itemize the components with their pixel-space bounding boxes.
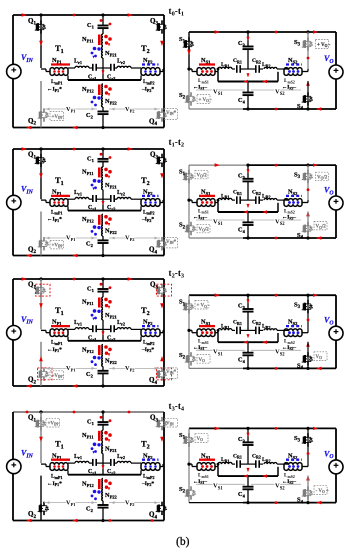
svg-text:S2: S2 <box>179 352 186 361</box>
svg-text:C1: C1 <box>87 285 95 293</box>
svg-text:VIN: VIN <box>166 422 174 427</box>
red arrow on bottom rail <box>26 384 31 388</box>
red arrow on bottom rail mid <box>72 384 77 388</box>
winding Np11 (red bar + coil) <box>98 168 101 178</box>
wire: Ns1 connections <box>189 68 192 70</box>
svg-text:CR2: CR2 <box>252 453 261 459</box>
svg-text:+VIN-: +VIN- <box>52 244 64 249</box>
svg-text:NP11: NP11 <box>82 299 94 307</box>
wire: rectifier lower bus <box>217 72 219 82</box>
svg-text:Q2: Q2 <box>28 510 36 520</box>
svg-text:+VIN-: +VIN- <box>52 115 64 120</box>
red dot right of C1 <box>109 419 112 422</box>
svg-text:LmS2: LmS2 <box>284 78 295 84</box>
svg-text:T2: T2 <box>141 43 150 55</box>
svg-text:LmP1: LmP1 <box>51 474 62 480</box>
wire: Np1 to leg <box>41 463 46 465</box>
node dot at C3 junction <box>246 294 249 297</box>
red arrow on top rail right <box>128 13 133 17</box>
transistor S2 <box>190 222 192 226</box>
wire: left bridge bottom rail <box>13 255 164 257</box>
capacitor Cr2 <box>103 328 111 330</box>
wire: left bridge bottom rail <box>13 127 164 129</box>
wire: Ns1 connections <box>189 463 192 465</box>
svg-text:S3: S3 <box>294 39 301 48</box>
red arrow below C3 junction <box>247 468 250 472</box>
svg-text:T1: T1 <box>55 175 64 187</box>
red dot at C1 <box>100 153 103 156</box>
red arrow at C3 <box>247 37 250 41</box>
blue dots at Np22 <box>93 225 97 229</box>
transistor Q1 <box>40 154 42 158</box>
winding Np12 (red bar + coil) <box>98 479 101 489</box>
svg-text:S1: S1 <box>179 432 186 441</box>
svg-text:CR1: CR1 <box>233 320 242 326</box>
wire: left bridge right rail <box>163 149 165 256</box>
blue dots in Lmp2 <box>144 70 147 73</box>
wire: Np2 box to right leg <box>160 71 163 73</box>
source Vo <box>329 196 343 210</box>
capacitor C2 <box>102 367 104 371</box>
svg-text:NP12: NP12 <box>82 480 95 488</box>
wire: rectifier left leg <box>188 428 190 464</box>
node dot at Ns1 left <box>187 67 190 70</box>
wire: left bridge right rail <box>163 279 165 386</box>
red arrow on Q4 leg <box>160 356 164 361</box>
red arrow on rectifier top rail right <box>313 30 318 33</box>
red dot on top rail <box>73 148 76 151</box>
inductor Lmp2 box with coil <box>141 68 160 70</box>
svg-text:Lr2: Lr2 <box>117 59 125 65</box>
transistor S3 <box>307 300 309 304</box>
svg-text:NP22: NP22 <box>105 98 118 106</box>
label Vs1 measurement <box>196 483 245 485</box>
inductor Lmp2 box with coil <box>141 199 160 201</box>
svg-text:Cr1: Cr1 <box>88 75 96 81</box>
capacitor Cr2 <box>103 67 111 69</box>
wire: Np2 box to right leg <box>160 466 163 468</box>
red arrow on Q2 leg <box>39 356 43 361</box>
blue dots at Np22 <box>93 356 97 360</box>
svg-text:←IP1*: ←IP1* <box>47 217 62 223</box>
svg-text:Cr1: Cr1 <box>88 205 96 211</box>
wire: Q1/Q2 leg <box>40 149 42 199</box>
winding Ns2 box with coil <box>284 463 302 465</box>
svg-text:C3: C3 <box>238 172 246 180</box>
red dot on top rail right <box>128 411 131 414</box>
label Vo at S1 with dashed box <box>195 170 208 179</box>
svg-text:LmP2: LmP2 <box>143 474 154 480</box>
svg-text:VO: VO <box>324 449 334 460</box>
svg-text:VIN: VIN <box>21 315 34 326</box>
svg-text:Lr1: Lr1 <box>74 190 82 196</box>
node dot at S3 junction <box>306 30 309 33</box>
wire: Np2 box to right leg <box>160 332 163 334</box>
svg-text:VS1: VS1 <box>213 218 223 227</box>
wire: rectifier left leg <box>188 32 190 69</box>
wire: left bridge right rail <box>163 412 165 521</box>
svg-text:NP11: NP11 <box>82 432 94 440</box>
label +Vin- at Q4 with dashed box <box>164 368 178 379</box>
svg-text:VP1: VP1 <box>66 365 76 373</box>
winding Np21 (coil) <box>102 442 103 453</box>
svg-text:Cr2: Cr2 <box>107 205 115 211</box>
red dot on bottom rail x152 <box>151 519 154 522</box>
transistor Q1 <box>40 284 42 288</box>
svg-text:+VIN-: +VIN- <box>48 422 60 427</box>
svg-text:T1: T1 <box>55 439 64 451</box>
node dot at C3 junction <box>246 30 249 33</box>
wire: left bridge right rail <box>163 15 165 128</box>
red arrow on lower bus left <box>243 80 248 83</box>
wire: rectifier top rail <box>189 427 336 429</box>
svg-text:C1: C1 <box>87 22 95 30</box>
wire: rectifier bottom rail <box>189 367 243 369</box>
blue dots at Np21 <box>93 47 97 51</box>
svg-text:C2: C2 <box>86 112 94 120</box>
svg-text:CR2: CR2 <box>252 190 261 196</box>
wire: rectifier right inner leg lower <box>307 342 309 369</box>
red arrow on top rail <box>22 13 27 17</box>
node dot at C4 bottom junction <box>246 501 249 504</box>
node dot at Q1 leg junction <box>39 410 42 413</box>
wire: tank bus stub left <box>67 76 69 81</box>
capacitor Cr1 (rect) <box>236 460 238 468</box>
svg-text:S3: S3 <box>294 435 301 444</box>
wire: Ns1 connections <box>189 329 192 331</box>
transistor S4 <box>307 352 309 356</box>
red arrow below C3 junction <box>247 204 250 208</box>
svg-text:VO/2: VO/2 <box>316 225 327 230</box>
red arrow below C3 junction <box>247 73 250 77</box>
svg-text:C2: C2 <box>86 241 94 249</box>
label Vs2 measurement <box>251 349 301 351</box>
red arrow on rectifier bottom rail <box>316 236 321 240</box>
svg-text:C1: C1 <box>87 155 95 163</box>
blue dots at Np21 <box>93 443 97 447</box>
wire: left bridge bottom rail <box>13 385 164 387</box>
wire: Ns2 to right leg <box>302 466 308 468</box>
wire: rectifier right inner leg upper <box>307 32 309 69</box>
label Vp2 measurement <box>109 237 160 239</box>
red arrow on rectifier top rail right <box>313 163 318 166</box>
red dot on bottom rail x110 <box>109 519 112 522</box>
label Vp2 measurement <box>109 502 160 504</box>
node dot at C2 junction <box>101 519 104 522</box>
wire: rectifier right rail + Vo source <box>335 295 337 326</box>
transistor S2 <box>190 486 192 490</box>
wire: Np1 to leg <box>41 199 46 201</box>
label Vs2 measurement <box>251 89 301 91</box>
capacitor Cr1 <box>92 195 94 202</box>
node dot at S4 bottom junction <box>306 236 309 239</box>
svg-text:(b): (b) <box>176 536 190 548</box>
svg-text:Lr1: Lr1 <box>74 59 82 65</box>
inductor Lmp2 box with coil <box>141 329 160 331</box>
red arrow on Q1 leg <box>39 303 43 308</box>
wire: rectifier right inner leg lower <box>307 212 309 239</box>
red dot on right inner leg <box>307 188 310 191</box>
svg-text:S4: S4 <box>297 497 304 506</box>
winding Np12 (red bar + coil) <box>98 215 101 225</box>
winding Np22 (coil) <box>102 356 103 367</box>
node dot at Q1 leg junction <box>39 277 42 280</box>
wire: Ns2 to right leg <box>302 332 308 334</box>
svg-text:VIN: VIN <box>21 185 34 196</box>
inductor Lmp2 box with coil <box>141 463 160 465</box>
red arrow on Q1 leg <box>39 437 43 442</box>
transistor Q4 <box>161 108 163 112</box>
svg-text:←IP1*: ←IP1* <box>47 87 62 93</box>
red dot right of C1 <box>109 286 112 289</box>
capacitor C3 <box>247 32 249 47</box>
capacitor C1 <box>102 279 104 289</box>
wire: rectifier bottom rail <box>189 502 243 504</box>
red arrow on rectifier bottom rail <box>316 501 321 505</box>
source Vin <box>7 459 21 473</box>
svg-text:LmP2: LmP2 <box>143 79 154 85</box>
svg-text:VO: VO <box>324 186 334 197</box>
node dot at C4 bottom junction <box>246 367 249 370</box>
svg-text:NP11: NP11 <box>82 36 94 44</box>
wire: Np2 box to right leg <box>160 202 163 204</box>
svg-text:Q3: Q3 <box>150 281 158 291</box>
red arrow center tank <box>102 465 105 469</box>
red dots in Lmp1 <box>53 201 56 204</box>
winding Np12 (red bar + coil) <box>98 85 101 96</box>
svg-text:S4: S4 <box>297 232 304 241</box>
svg-text:S4: S4 <box>297 103 304 112</box>
winding Np21 (coil) <box>102 47 103 59</box>
red dot at C1 <box>100 416 103 419</box>
svg-text:Q4: Q4 <box>149 118 157 128</box>
svg-text:S3: S3 <box>294 172 301 181</box>
label +Vin- at Q2 with dashed box <box>50 240 64 249</box>
inductor Lmp1 box with coil <box>50 329 68 331</box>
red dots in Lmp1 <box>53 465 56 468</box>
label Vs1 measurement <box>196 219 245 221</box>
winding Ns1 box with coil <box>197 199 215 201</box>
wire: Q1/Q2 leg <box>40 15 42 68</box>
transistor Q3 <box>161 154 163 158</box>
blue dots in Lmp2 <box>144 201 147 204</box>
svg-text:Q1: Q1 <box>28 151 36 161</box>
svg-text:CR1: CR1 <box>233 58 242 64</box>
red dot right of C1 <box>109 156 112 159</box>
svg-text:VIN: VIN <box>21 448 34 459</box>
red arrow on top rail right <box>128 277 133 281</box>
red dots at Np11 <box>104 35 108 39</box>
svg-text:VIN*: VIN* <box>166 111 177 116</box>
red arrow at C3 <box>247 433 250 437</box>
wire: Np1 to leg <box>41 329 46 331</box>
capacitor C4 <box>247 81 249 93</box>
red arrow up on S4 leg <box>306 475 310 480</box>
label Vo at S1 with dashed box <box>195 434 208 443</box>
red dot on rectifier bottom rail <box>275 237 278 240</box>
svg-text:Lr1: Lr1 <box>74 320 82 326</box>
wire: left bridge left rail upper + Vin source <box>12 412 14 460</box>
wire: Ns1 connections <box>189 199 192 201</box>
svg-text:VO: VO <box>197 437 204 442</box>
wire: rectifier top rail <box>189 164 248 166</box>
svg-text:S2: S2 <box>179 222 186 231</box>
red arrow on bottom rail <box>26 126 31 130</box>
wire: Np1 to leg <box>41 68 46 70</box>
winding Ns1 box with coil <box>197 463 215 465</box>
red dots at Np12 <box>104 215 108 219</box>
red arrow on lower bus right <box>262 341 267 344</box>
source Vo <box>329 460 343 474</box>
transistor Q3 <box>161 20 163 24</box>
svg-text:LmP2: LmP2 <box>143 340 154 346</box>
transistor Q4 <box>161 502 163 506</box>
svg-text:+ VO -: + VO - <box>199 98 213 103</box>
svg-text:Lr2: Lr2 <box>117 190 125 196</box>
node at Ns1/Lr1 <box>217 199 220 202</box>
red arrow on Q3 leg <box>160 173 164 178</box>
capacitor C2 <box>102 107 104 112</box>
red arrow on bottom rail <box>26 254 31 258</box>
red arrow on rectifier top rail <box>215 427 220 431</box>
svg-text:T2: T2 <box>141 439 150 451</box>
svg-text:LmS1: LmS1 <box>198 78 209 84</box>
capacitor C2 <box>102 501 104 505</box>
wire: rectifier lower bus <box>217 467 219 476</box>
node at Ns1/Lr1 <box>217 68 220 71</box>
wire: rectifier right inner leg upper <box>307 295 309 330</box>
red arrow on bottom rail <box>26 519 31 523</box>
svg-text:Q2: Q2 <box>28 376 36 386</box>
svg-text:Cr2: Cr2 <box>107 75 115 81</box>
node dot at C1 junction <box>101 147 104 150</box>
red dot on rectifier bottom rail <box>275 367 278 370</box>
capacitor Cr1 <box>92 64 94 71</box>
svg-text:←IP1*: ←IP1* <box>47 347 62 353</box>
svg-text:t3-t4: t3-t4 <box>169 401 185 413</box>
red arrow on lower bus left <box>243 210 248 213</box>
svg-text:Q4: Q4 <box>149 511 157 521</box>
wire: lower tank bus <box>68 340 141 342</box>
node dot at S4 bottom junction <box>306 501 309 504</box>
svg-text:CR1: CR1 <box>233 453 242 459</box>
label Vp1 measurement <box>44 502 97 504</box>
red dot on right inner leg <box>307 57 310 60</box>
node dot at S4 bottom junction <box>306 367 309 370</box>
transistor Q4 <box>161 237 163 241</box>
red dot at C1 <box>100 283 103 286</box>
node dot at C1 junction <box>101 277 104 280</box>
wire: left bridge left rail upper + Vin source <box>12 149 14 196</box>
wire: left bridge left rail upper + Vin source <box>12 15 14 65</box>
svg-text:NP21: NP21 <box>105 446 118 454</box>
svg-text:VP1: VP1 <box>66 106 76 114</box>
red arrow on lower bus right <box>262 210 267 213</box>
wire: Ns2 to right leg <box>302 71 308 73</box>
node dot at Ns1 left <box>187 329 190 332</box>
node dot at Ns1 left <box>187 199 190 202</box>
node dot at C3 junction <box>246 427 249 430</box>
red arrow on rectifier top rail <box>215 163 220 167</box>
label Vo at S4 with dashed box <box>314 221 327 230</box>
transistor Q2 <box>43 108 45 112</box>
red arrow on rectifier top rail right <box>313 427 318 430</box>
svg-text:Cr1: Cr1 <box>88 335 96 341</box>
capacitor Cr2 <box>103 198 111 200</box>
svg-text:C2: C2 <box>86 371 94 379</box>
transistor Q2 <box>43 237 45 241</box>
svg-text:T1: T1 <box>55 43 64 55</box>
svg-text:VO/2: VO/2 <box>197 174 208 179</box>
red arrow on rectifier bottom rail <box>316 107 321 111</box>
wire: tank bus stub right <box>140 337 142 341</box>
wire: center column to tank <box>102 454 104 475</box>
winding Ns2 box with coil <box>284 199 302 201</box>
blue dots in Ns2 <box>288 201 291 204</box>
capacitor Cr2 (rect) <box>248 329 256 331</box>
red dot on right inner leg <box>307 319 310 322</box>
red dot on top rail <box>73 411 76 414</box>
svg-text:VO/2: VO/2 <box>199 227 210 232</box>
svg-text:t1-t2: t1-t2 <box>169 137 185 149</box>
wire: Q1/Q2 leg <box>40 279 42 329</box>
capacitor Cr2 (rect) <box>248 68 256 70</box>
svg-text:Cr2: Cr2 <box>107 469 115 475</box>
node dot at C4 bottom junction <box>246 236 249 239</box>
wire: rectifier top rail <box>189 31 336 33</box>
label +Vin- at Q4 with dashed box <box>164 238 178 248</box>
transistor Q4 <box>161 367 163 371</box>
red dots at Np11 <box>104 168 108 172</box>
label Vo at S2 with dashed box <box>197 95 210 104</box>
label Vp1 measurement <box>44 367 97 369</box>
wire: Q1/Q2 leg <box>40 412 42 463</box>
red dots in Ns1 <box>201 201 204 204</box>
red arrow on Q3 leg <box>160 437 164 442</box>
transistor S3 <box>307 37 309 41</box>
transistor S3 <box>307 170 309 174</box>
svg-text:Q2: Q2 <box>28 117 36 127</box>
svg-text:C4: C4 <box>238 491 246 499</box>
svg-text:VP1: VP1 <box>66 235 76 243</box>
svg-text:VP2: VP2 <box>125 499 135 507</box>
capacitor Cr1 (rect) <box>236 65 238 73</box>
svg-text:C4: C4 <box>238 226 246 234</box>
capacitor C4 <box>247 212 249 223</box>
winding Ns2 box with coil <box>284 329 302 331</box>
winding Np22 (coil) <box>102 225 103 236</box>
red arrow up on S4 leg <box>306 211 310 216</box>
winding Ns1 box with coil <box>197 329 215 331</box>
wire: rectifier bottom rail <box>189 108 243 110</box>
wire: left bridge top rail (panel 1) <box>13 14 164 16</box>
winding Np22 (coil) <box>102 490 103 501</box>
blue dots at Np21 <box>93 309 97 313</box>
red arrow center tank <box>102 201 105 205</box>
red arrow at C3 <box>247 299 250 303</box>
red arrow on rectifier top rail <box>215 293 220 297</box>
source Vo <box>329 65 343 79</box>
svg-text:Lr1: Lr1 <box>74 454 82 460</box>
svg-text:C2: C2 <box>86 505 94 513</box>
inductor Lmp1 box with coil <box>50 463 68 465</box>
svg-text:NP11: NP11 <box>82 169 94 177</box>
wire: rectifier right inner leg lower <box>307 81 309 109</box>
svg-text:S2: S2 <box>179 486 186 495</box>
transistor S4 <box>307 92 309 96</box>
svg-text:NP12: NP12 <box>82 346 95 354</box>
svg-text:C1: C1 <box>87 419 95 427</box>
